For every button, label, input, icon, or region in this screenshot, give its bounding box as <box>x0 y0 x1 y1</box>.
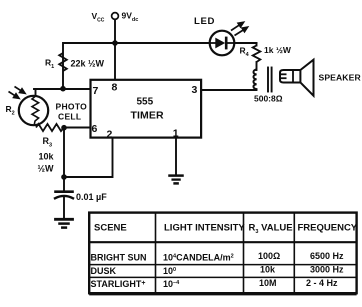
svg-text:3: 3 <box>192 84 198 96</box>
svg-text:7: 7 <box>93 85 99 97</box>
svg-text:500:8Ω: 500:8Ω <box>254 94 283 104</box>
svg-text:1k ½W: 1k ½W <box>264 45 292 55</box>
svg-text:R3 VALUE: R3 VALUE <box>249 223 293 236</box>
svg-text:6: 6 <box>92 123 98 135</box>
svg-text:BRIGHT SUN: BRIGHT SUN <box>91 253 147 263</box>
svg-text:22k ½W: 22k ½W <box>71 59 105 69</box>
svg-text:LIGHT INTENSITY: LIGHT INTENSITY <box>164 223 245 234</box>
svg-text:STARLIGHT+: STARLIGHT+ <box>91 279 146 289</box>
svg-text:SCENE: SCENE <box>94 223 127 234</box>
svg-text:10M: 10M <box>259 278 277 288</box>
svg-text:TIMER: TIMER <box>131 110 164 122</box>
svg-text:555: 555 <box>137 97 154 108</box>
svg-text:10k: 10k <box>260 265 276 275</box>
svg-text:SPEAKER: SPEAKER <box>319 73 362 83</box>
svg-text:100Ω: 100Ω <box>258 251 280 261</box>
svg-text:8: 8 <box>112 82 118 94</box>
svg-text:0.01 µF: 0.01 µF <box>76 192 107 202</box>
svg-text:FREQUENCY: FREQUENCY <box>298 223 358 234</box>
svg-text:1: 1 <box>173 128 179 140</box>
svg-text:2: 2 <box>107 128 113 140</box>
svg-text:LED: LED <box>194 16 215 27</box>
svg-text:10k: 10k <box>39 152 55 162</box>
svg-text:PHOTO: PHOTO <box>56 102 88 112</box>
svg-text:½W: ½W <box>38 164 55 174</box>
svg-text:2 - 4 Hz: 2 - 4 Hz <box>306 278 338 288</box>
svg-text:DUSK: DUSK <box>91 266 117 276</box>
svg-text:6500 Hz: 6500 Hz <box>310 251 344 261</box>
svg-text:CELL: CELL <box>58 112 81 122</box>
svg-text:3000 Hz: 3000 Hz <box>310 265 344 275</box>
